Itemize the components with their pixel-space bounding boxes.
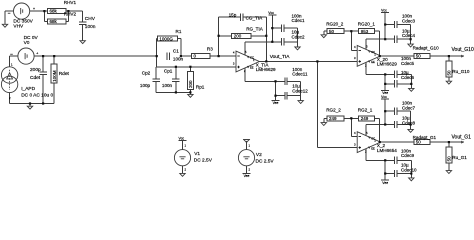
svg-text:Cdec3: Cdec3 bbox=[402, 18, 416, 23]
svg-text:LMH6629: LMH6629 bbox=[377, 62, 397, 67]
svg-text:V1: V1 bbox=[194, 151, 200, 157]
svg-text:Rdet: Rdet bbox=[59, 71, 70, 77]
svg-text:R3: R3 bbox=[207, 46, 213, 51]
svg-text:V: V bbox=[368, 59, 370, 63]
svg-text:RG_TIA: RG_TIA bbox=[246, 26, 264, 31]
svg-text:100n: 100n bbox=[173, 57, 184, 62]
svg-text:Ru_G1: Ru_G1 bbox=[452, 155, 467, 160]
svg-text:Cdec12: Cdec12 bbox=[292, 88, 308, 93]
svg-text:Vcc: Vcc bbox=[381, 95, 387, 99]
svg-text:V: V bbox=[247, 55, 249, 59]
svg-text:Cdec1: Cdec1 bbox=[292, 18, 306, 23]
svg-text:Vout_TIA: Vout_TIA bbox=[270, 54, 291, 60]
svg-text:CHV: CHV bbox=[85, 16, 96, 22]
svg-text:50: 50 bbox=[447, 70, 452, 76]
svg-text:Cp1: Cp1 bbox=[164, 68, 173, 73]
svg-text:DC 0 AC 10u 0: DC 0 AC 10u 0 bbox=[21, 92, 53, 98]
svg-text:Cdec8: Cdec8 bbox=[402, 120, 416, 125]
svg-text:1000G: 1000G bbox=[159, 36, 173, 41]
svg-text:C1: C1 bbox=[173, 49, 179, 54]
svg-text:Cdec9: Cdec9 bbox=[401, 153, 415, 158]
svg-text:100n: 100n bbox=[85, 24, 96, 30]
svg-text:DC 350V: DC 350V bbox=[13, 18, 33, 24]
svg-text:50: 50 bbox=[416, 54, 422, 59]
svg-text:200p: 200p bbox=[30, 67, 41, 73]
svg-text:Vcc: Vcc bbox=[178, 136, 184, 140]
svg-text:RG2_1: RG2_1 bbox=[358, 108, 373, 113]
svg-text:249: 249 bbox=[329, 116, 337, 121]
svg-text:Vout_G10: Vout_G10 bbox=[452, 47, 474, 53]
svg-text:CG_TIA: CG_TIA bbox=[246, 15, 264, 20]
svg-text:249: 249 bbox=[361, 116, 369, 121]
svg-text:RHV1: RHV1 bbox=[64, 0, 77, 5]
svg-text:Vout_G1: Vout_G1 bbox=[452, 135, 472, 141]
svg-text:EE: EE bbox=[371, 146, 375, 150]
svg-text:DC 2.5V: DC 2.5V bbox=[256, 159, 275, 165]
svg-text:200: 200 bbox=[188, 80, 193, 88]
svg-text:100n: 100n bbox=[162, 83, 173, 88]
svg-text:50: 50 bbox=[416, 140, 422, 145]
svg-text:RG20_2: RG20_2 bbox=[326, 21, 344, 26]
svg-text:68k: 68k bbox=[50, 19, 58, 24]
svg-text:LMH6654: LMH6654 bbox=[377, 148, 397, 153]
svg-text:Cdec6: Cdec6 bbox=[401, 75, 415, 80]
svg-text:LMH6629: LMH6629 bbox=[256, 67, 276, 72]
svg-text:Vee: Vee bbox=[382, 181, 388, 185]
svg-text:+: + bbox=[36, 51, 38, 55]
svg-text:V: V bbox=[368, 49, 370, 53]
svg-text:Cdec4: Cdec4 bbox=[402, 33, 416, 38]
svg-text:V0: V0 bbox=[24, 40, 30, 46]
svg-text:Radapt_G10: Radapt_G10 bbox=[413, 46, 439, 51]
svg-text:Radapt_G1: Radapt_G1 bbox=[413, 135, 437, 140]
svg-text:Ru_G10: Ru_G10 bbox=[452, 69, 470, 74]
svg-text:15p: 15p bbox=[229, 12, 237, 17]
svg-text:Cdec10: Cdec10 bbox=[401, 167, 417, 172]
svg-text:Cdet: Cdet bbox=[30, 75, 41, 81]
svg-text:50: 50 bbox=[329, 29, 335, 34]
svg-text:Cdec7: Cdec7 bbox=[402, 105, 416, 110]
svg-text:100p: 100p bbox=[140, 83, 151, 88]
svg-text:Vcc: Vcc bbox=[268, 11, 274, 15]
svg-text:RG2_2: RG2_2 bbox=[326, 108, 341, 113]
svg-text:68k: 68k bbox=[50, 9, 58, 14]
svg-text:V2: V2 bbox=[256, 152, 262, 158]
svg-text:Vee: Vee bbox=[244, 174, 250, 178]
svg-text:50: 50 bbox=[447, 156, 452, 162]
svg-text:V: V bbox=[247, 65, 249, 69]
svg-text:200: 200 bbox=[234, 33, 242, 38]
svg-text:+: + bbox=[33, 7, 35, 11]
svg-text:Cdec11: Cdec11 bbox=[292, 72, 308, 77]
svg-text:Cdec2: Cdec2 bbox=[292, 34, 306, 39]
svg-text:EE: EE bbox=[250, 66, 254, 70]
svg-text:I_APD: I_APD bbox=[21, 86, 35, 92]
svg-text:Rp1: Rp1 bbox=[196, 84, 205, 89]
svg-text:Cp2: Cp2 bbox=[142, 70, 151, 75]
svg-text:Vcc: Vcc bbox=[381, 8, 387, 12]
svg-text:Vee: Vee bbox=[273, 101, 279, 105]
svg-text:RG20_1: RG20_1 bbox=[358, 21, 376, 26]
svg-text:100M: 100M bbox=[52, 70, 57, 82]
svg-text:V: V bbox=[368, 136, 370, 140]
svg-text:EE: EE bbox=[371, 60, 375, 64]
svg-text:RHV2: RHV2 bbox=[64, 12, 77, 17]
svg-text:953: 953 bbox=[361, 29, 369, 34]
svg-text:Cdec5: Cdec5 bbox=[401, 61, 415, 66]
svg-text:V: V bbox=[368, 146, 370, 150]
svg-text:VHV: VHV bbox=[13, 24, 24, 30]
svg-text:DC 2.5V: DC 2.5V bbox=[194, 157, 213, 163]
svg-text:R1: R1 bbox=[176, 29, 182, 34]
